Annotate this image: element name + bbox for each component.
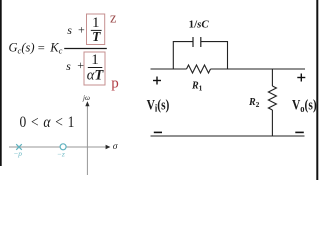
plus terminal output: [297, 74, 305, 82]
svg-text:R1: R1: [191, 81, 203, 93]
svg-text:p: p: [111, 75, 119, 91]
red z label: [110, 11, 117, 27]
plus terminal input: [153, 77, 161, 85]
svg-text:Vi(s): Vi(s): [147, 96, 170, 115]
right frame bar: [316, 0, 318, 180]
svg-text:σ: σ: [113, 142, 118, 152]
numerator s +: [67, 22, 85, 36]
svg-text:=: =: [38, 41, 45, 55]
label Vo(s) output voltage: [292, 96, 317, 115]
pole mark x at -p: [16, 144, 22, 150]
svg-text:−z: −z: [57, 149, 65, 158]
pole label -p: [13, 149, 22, 158]
jw axis (vertical): [85, 101, 89, 175]
sigma axis (horizontal): [9, 145, 110, 149]
zero label -z: [57, 149, 65, 158]
wire main top right segment: [211, 68, 306, 70]
capacitor C (plates): [193, 37, 201, 47]
label Vi(s) input voltage: [147, 96, 170, 115]
svg-text:s: s: [67, 23, 72, 37]
capacitor label 1/sC: [189, 18, 210, 30]
svg-text:s: s: [66, 59, 71, 73]
resistor R1: [187, 65, 211, 73]
wire bottom return: [151, 135, 305, 137]
svg-text:Kc: Kc: [49, 41, 62, 56]
label R1: [191, 81, 203, 93]
sigma axis label: [113, 142, 118, 152]
svg-text:1/sC: 1/sC: [189, 18, 210, 30]
wire R2 branch lower: [271, 110, 273, 136]
svg-text:Gc(s): Gc(s): [9, 41, 35, 56]
main fraction bar: [64, 48, 107, 50]
wire main top left segment: [151, 68, 187, 70]
denominator s +: [66, 58, 84, 73]
jw axis label: [82, 94, 90, 102]
condition text 0 < alpha < 1: [20, 114, 76, 131]
numerator box (zero term 1/T): [87, 14, 105, 45]
svg-text:z: z: [110, 11, 117, 27]
label R2: [248, 97, 260, 109]
svg-text:jω: jω: [82, 94, 90, 102]
svg-text:−p: −p: [13, 149, 22, 158]
equation Gc(s) = Kc: [9, 41, 63, 56]
wire R2 branch upper: [271, 69, 273, 86]
minus terminal output: [295, 131, 304, 133]
red p label: [111, 75, 119, 91]
svg-text:Vo(s): Vo(s): [292, 96, 317, 115]
svg-text:R2: R2: [248, 97, 260, 109]
zero mark o at -z: [60, 144, 66, 150]
svg-text:+: +: [78, 22, 85, 36]
wire capacitor loop: [173, 42, 227, 69]
svg-text:T: T: [92, 29, 101, 44]
denominator box (pole term 1/aT): [84, 52, 105, 85]
left frame bar: [0, 0, 2, 166]
svg-text:1: 1: [91, 52, 99, 68]
svg-text:αT: αT: [87, 67, 105, 83]
svg-text:+: +: [77, 58, 84, 72]
resistor R2: [268, 86, 276, 110]
svg-text:0 < α < 1: 0 < α < 1: [20, 114, 76, 131]
minus terminal input: [154, 131, 162, 133]
